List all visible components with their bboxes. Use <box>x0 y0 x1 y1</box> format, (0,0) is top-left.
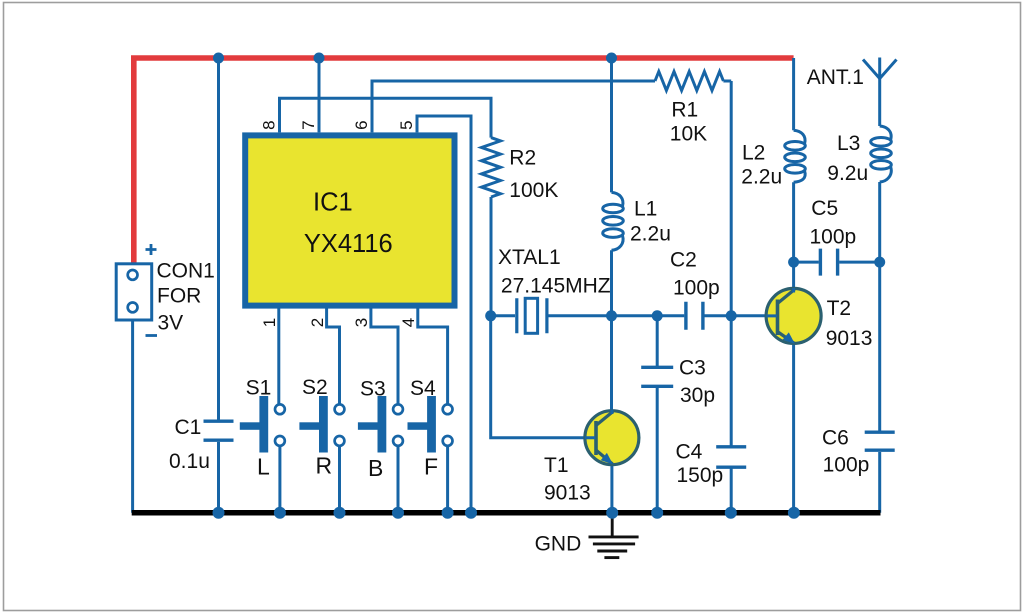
svg-text:2.2u: 2.2u <box>630 222 671 245</box>
svg-text:FOR: FOR <box>157 285 201 308</box>
svg-text:4: 4 <box>399 318 418 327</box>
wire: crystal node row <box>491 314 776 317</box>
wire: S1 bottom to ground bus <box>278 446 281 513</box>
svg-text:L: L <box>257 454 270 480</box>
svg-text:C6: C6 <box>822 426 849 449</box>
wire: pin 8 to R2 top <box>280 98 492 137</box>
wire: V+ red power rail <box>134 58 794 264</box>
svg-text:S2: S2 <box>302 376 328 399</box>
svg-text:R: R <box>316 453 333 479</box>
svg-text:C4: C4 <box>676 440 703 463</box>
wire: C3 branch <box>656 316 659 513</box>
svg-text:IC1: IC1 <box>313 188 353 216</box>
switch S2 <box>299 396 327 453</box>
inductor L1 <box>603 192 624 250</box>
wire: C5 row <box>794 261 880 264</box>
svg-text:2.2u: 2.2u <box>741 166 782 189</box>
svg-text:100p: 100p <box>673 277 720 300</box>
svg-text:3: 3 <box>352 318 371 327</box>
svg-text:1: 1 <box>260 318 279 327</box>
capacitor C4 <box>716 447 746 467</box>
svg-text:100p: 100p <box>810 226 857 249</box>
connector CON1 <box>116 264 152 320</box>
svg-text:27.145MHZ: 27.145MHZ <box>501 274 611 297</box>
svg-text:30p: 30p <box>680 384 715 407</box>
capacitor C6 <box>865 432 895 450</box>
svg-text:XTAL1: XTAL1 <box>498 246 561 269</box>
wire: pin 7 to red rail <box>318 58 321 132</box>
wire: S2 bottom to ground bus <box>338 446 341 513</box>
svg-text:F: F <box>424 454 438 480</box>
wire: S4 bottom to ground bus <box>446 446 449 513</box>
wire: R1 right lead down through C4 to ground bus <box>723 81 731 513</box>
wire: antenna through L3 and C6 to ground bus <box>878 79 881 513</box>
wire: L2 branch, T2 collector and emitter <box>792 58 795 513</box>
svg-text:C2: C2 <box>670 248 697 271</box>
capacitor C1 <box>204 421 234 440</box>
resistor R1 <box>655 72 723 91</box>
crystal XTAL1 <box>517 298 547 333</box>
transistor T1 <box>585 410 639 465</box>
svg-text:C5: C5 <box>811 197 838 220</box>
wire: pin 6 to R1 left <box>372 81 655 132</box>
svg-text:B: B <box>368 455 383 481</box>
svg-text:150p: 150p <box>677 464 724 487</box>
svg-text:6: 6 <box>352 120 371 129</box>
junction dots on C5 node <box>788 257 885 268</box>
svg-text:R2: R2 <box>509 147 536 170</box>
svg-text:L2: L2 <box>742 142 765 165</box>
junction dots on crystal node <box>485 310 737 321</box>
svg-text:S3: S3 <box>360 377 386 400</box>
svg-text:3V: 3V <box>158 312 184 335</box>
CON1 minus mark <box>146 334 158 337</box>
wire: R2 bottom to crystal node and T1 base <box>491 197 594 438</box>
svg-text:9.2u: 9.2u <box>827 162 868 185</box>
svg-text:CON1: CON1 <box>157 259 215 282</box>
svg-text:C3: C3 <box>679 356 706 379</box>
capacitor C5 <box>820 249 837 276</box>
transistor T2 <box>766 288 821 344</box>
svg-text:ANT.1: ANT.1 <box>807 66 864 89</box>
inductor L2 <box>785 130 806 182</box>
svg-text:C1: C1 <box>175 416 202 439</box>
wire: pin 4 to S4 <box>418 308 448 404</box>
junction dots on ground bus <box>213 507 800 519</box>
wire: S3 bottom to ground bus <box>397 446 400 513</box>
capacitor C3 <box>641 367 673 386</box>
IC U1 (IC1 YX4116) <box>245 135 454 305</box>
inductor L3 <box>871 126 892 182</box>
wire: pin 2 to S2 <box>327 308 340 404</box>
svg-text:T2: T2 <box>827 297 852 320</box>
switch S1 <box>240 396 268 453</box>
svg-text:5: 5 <box>397 120 416 129</box>
svg-text:L3: L3 <box>837 132 860 155</box>
svg-text:7: 7 <box>299 120 318 129</box>
CON1 plus mark <box>146 244 157 255</box>
svg-text:L1: L1 <box>634 198 657 221</box>
svg-text:9013: 9013 <box>544 482 591 505</box>
svg-text:9013: 9013 <box>826 327 873 350</box>
capacitor C2 <box>686 302 703 330</box>
svg-text:R1: R1 <box>671 99 698 122</box>
ground symbol <box>589 515 639 558</box>
svg-text:8: 8 <box>260 120 279 129</box>
svg-text:2: 2 <box>308 318 327 327</box>
svg-text:S4: S4 <box>410 377 436 400</box>
junction dots on red rail <box>213 53 617 64</box>
svg-text:100K: 100K <box>509 179 558 202</box>
resistor R2 <box>482 138 501 197</box>
wire: pin 3 to S3 <box>371 308 398 404</box>
wire: pin 1 to S1 <box>277 308 280 404</box>
svg-text:0.1u: 0.1u <box>169 450 210 473</box>
switch S3 <box>358 396 386 453</box>
svg-text:S1: S1 <box>246 377 272 400</box>
antenna ANT.1 <box>863 58 897 79</box>
switch S4 <box>408 396 436 453</box>
svg-text:T1: T1 <box>544 454 569 477</box>
wire: C1 branch from red rail <box>217 58 220 513</box>
ground bus <box>132 510 881 516</box>
wire: L1 branch, T1 collector and emitter <box>610 58 613 513</box>
svg-text:100p: 100p <box>823 454 870 477</box>
svg-text:GND: GND <box>535 532 582 555</box>
wire: pin 5 to ground bus <box>417 116 471 513</box>
wire: CON1 minus to ground bus <box>131 322 134 513</box>
svg-text:YX4116: YX4116 <box>304 230 393 258</box>
svg-text:10K: 10K <box>670 123 707 146</box>
